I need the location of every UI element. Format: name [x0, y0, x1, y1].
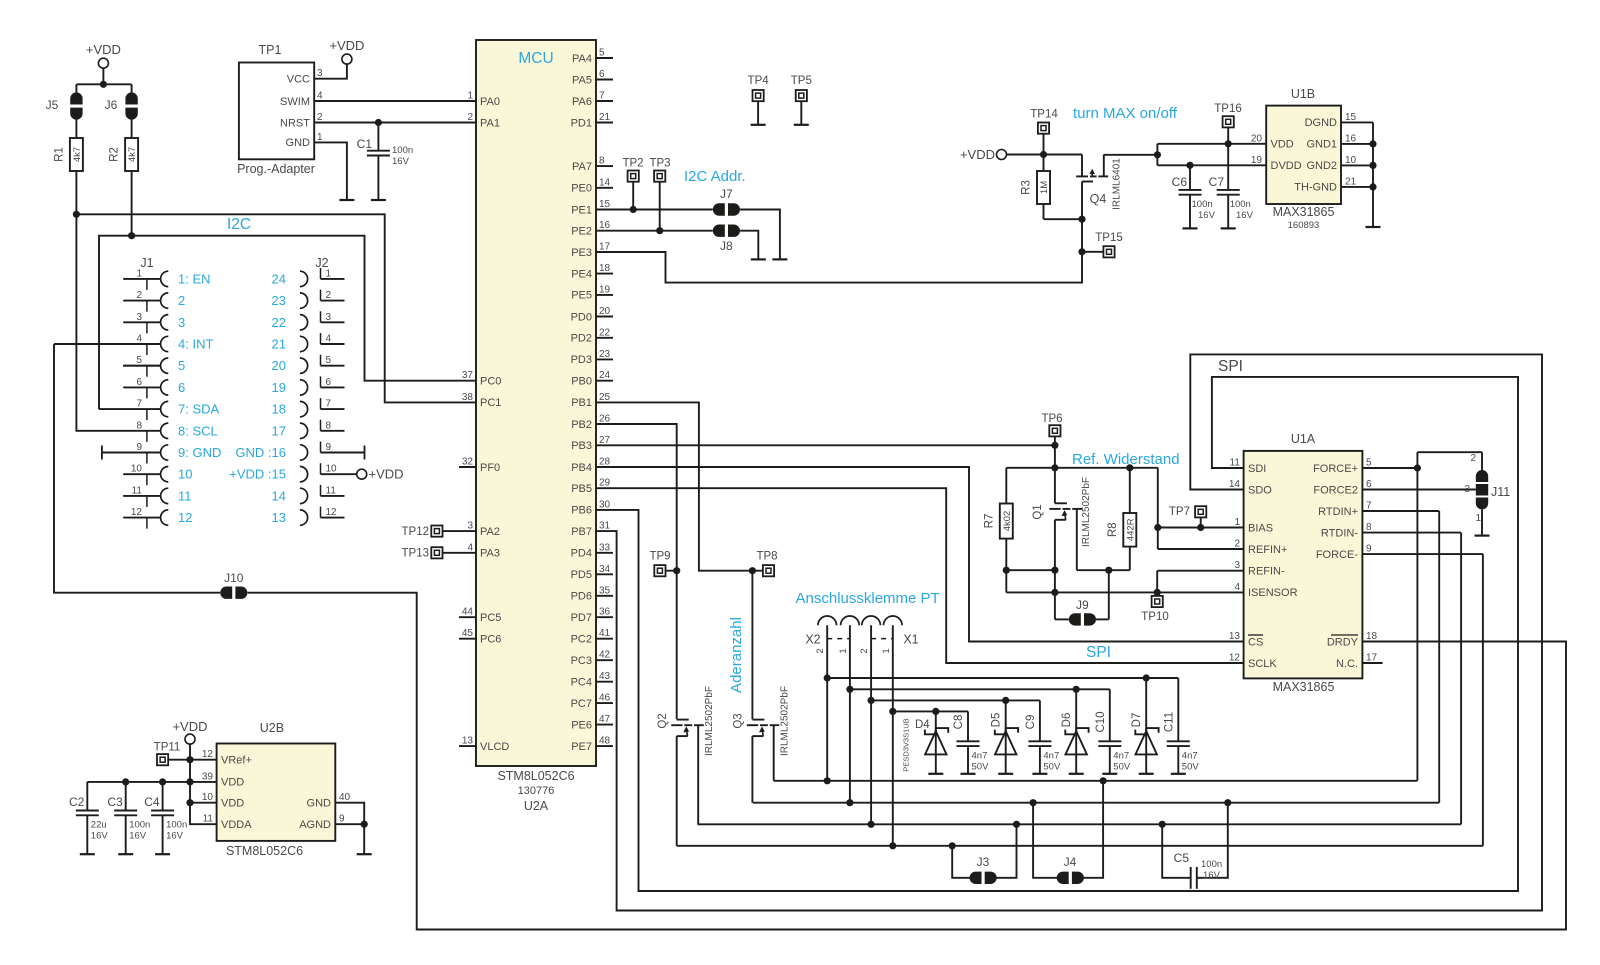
svg-text:29: 29 — [599, 478, 611, 489]
svg-text:4: 4 — [136, 334, 142, 345]
svg-text:19: 19 — [599, 284, 611, 295]
svg-text:5: 5 — [1366, 458, 1372, 469]
svg-text:17: 17 — [272, 423, 286, 438]
svg-text:C1: C1 — [357, 137, 373, 151]
svg-text:7: 7 — [599, 91, 605, 102]
svg-text:PB2: PB2 — [571, 419, 592, 431]
svg-text:C7: C7 — [1209, 175, 1225, 189]
svg-text:TP13: TP13 — [402, 548, 430, 560]
svg-text:1: 1 — [326, 268, 332, 279]
svg-text:3: 3 — [136, 312, 142, 323]
svg-text:GND2: GND2 — [1306, 160, 1337, 172]
svg-text:10: 10 — [131, 464, 143, 475]
svg-text:43: 43 — [599, 671, 611, 682]
svg-text:+VDD: +VDD — [960, 147, 995, 162]
svg-text:32: 32 — [462, 457, 474, 468]
svg-text:ISENSOR: ISENSOR — [1248, 587, 1298, 599]
svg-text:7: SDA: 7: SDA — [178, 402, 220, 417]
svg-text:1: 1 — [838, 648, 849, 653]
svg-text:PE4: PE4 — [571, 268, 592, 280]
svg-text:30: 30 — [599, 499, 611, 510]
svg-text:J1: J1 — [140, 256, 153, 270]
svg-text:PD2: PD2 — [571, 333, 592, 345]
svg-text:8: 8 — [1366, 522, 1372, 533]
svg-text:REFIN-: REFIN- — [1248, 566, 1285, 578]
svg-text:14: 14 — [1229, 479, 1241, 490]
svg-text:X1: X1 — [903, 633, 918, 647]
svg-text:4k7: 4k7 — [127, 147, 138, 162]
svg-text:TP12: TP12 — [402, 526, 430, 538]
svg-text:IRLML2502PbF: IRLML2502PbF — [1081, 477, 1092, 547]
svg-text:40: 40 — [339, 792, 351, 803]
svg-text:3: 3 — [178, 315, 185, 330]
svg-text:27: 27 — [599, 435, 611, 446]
svg-text:6: 6 — [136, 377, 142, 388]
svg-text:PD1: PD1 — [571, 117, 592, 129]
svg-text:MAX31865: MAX31865 — [1273, 680, 1335, 694]
svg-text:+VDD: +VDD — [329, 38, 364, 53]
svg-text:SDO: SDO — [1248, 484, 1272, 496]
svg-text:GND :16: GND :16 — [235, 445, 286, 460]
svg-text:8: 8 — [599, 156, 605, 167]
svg-text:7: 7 — [326, 399, 332, 410]
svg-text:23: 23 — [272, 293, 286, 308]
svg-text:J3: J3 — [977, 855, 990, 869]
svg-text:TP9: TP9 — [649, 551, 670, 563]
svg-text:39: 39 — [202, 771, 214, 782]
svg-text:14: 14 — [599, 177, 611, 188]
svg-text:18: 18 — [599, 263, 611, 274]
svg-text:U1A: U1A — [1291, 432, 1316, 446]
svg-text:41: 41 — [599, 628, 611, 639]
svg-text:C3: C3 — [107, 795, 123, 809]
svg-text:TP3: TP3 — [649, 158, 670, 170]
svg-text:GND: GND — [307, 798, 332, 810]
svg-text:25: 25 — [599, 392, 611, 403]
svg-text:4n7: 4n7 — [1182, 751, 1198, 762]
svg-text:GND: GND — [286, 137, 311, 149]
svg-text:Q1: Q1 — [1032, 504, 1044, 519]
svg-text:50V: 50V — [972, 762, 990, 773]
svg-text:5: 5 — [599, 48, 605, 59]
svg-text:TP7: TP7 — [1169, 506, 1190, 518]
svg-text:BIAS: BIAS — [1248, 522, 1273, 534]
svg-text:1M: 1M — [1039, 181, 1050, 194]
svg-text:STM8L052C6: STM8L052C6 — [226, 844, 303, 858]
svg-text:J10: J10 — [224, 571, 244, 585]
svg-text:20: 20 — [599, 306, 611, 317]
svg-text:PB6: PB6 — [571, 505, 592, 517]
svg-text:PB5: PB5 — [571, 483, 592, 495]
svg-text:PC5: PC5 — [480, 612, 501, 624]
svg-text:21: 21 — [1345, 176, 1357, 187]
svg-text:4: 4 — [317, 91, 323, 102]
svg-text:20: 20 — [272, 358, 286, 373]
svg-text:16: 16 — [1345, 133, 1357, 144]
svg-text:11: 11 — [203, 814, 214, 825]
svg-text:TP10: TP10 — [1141, 611, 1169, 623]
svg-text:U2A: U2A — [524, 799, 549, 813]
svg-text:PA5: PA5 — [572, 74, 592, 86]
svg-text:21: 21 — [599, 112, 611, 123]
svg-text:10: 10 — [326, 464, 338, 475]
svg-text:N.C.: N.C. — [1336, 658, 1358, 670]
svg-text:PD3: PD3 — [571, 354, 592, 366]
svg-text:1: 1 — [467, 91, 473, 102]
svg-text:D7: D7 — [1131, 713, 1143, 728]
svg-text:U2B: U2B — [260, 721, 284, 735]
svg-text:50V: 50V — [1043, 762, 1061, 773]
svg-text:PA1: PA1 — [480, 117, 500, 129]
svg-text:9: 9 — [339, 814, 345, 825]
svg-text:C10: C10 — [1095, 711, 1107, 732]
svg-text:34: 34 — [599, 564, 611, 575]
svg-text:2: 2 — [136, 290, 142, 301]
svg-text:2: 2 — [178, 293, 185, 308]
svg-text:2: 2 — [467, 112, 473, 123]
svg-text:21: 21 — [272, 337, 286, 352]
svg-text:VDD: VDD — [1271, 139, 1294, 151]
svg-text:2: 2 — [1470, 453, 1476, 464]
svg-text:PD5: PD5 — [571, 569, 592, 581]
svg-text:TP15: TP15 — [1095, 232, 1123, 244]
svg-text:VDD: VDD — [221, 777, 244, 789]
svg-text:33: 33 — [599, 542, 611, 553]
svg-text:PC0: PC0 — [480, 376, 501, 388]
svg-text:6: 6 — [326, 377, 332, 388]
svg-text:36: 36 — [599, 607, 611, 618]
svg-text:8: 8 — [136, 420, 142, 431]
svg-text:SPI: SPI — [1086, 644, 1111, 661]
svg-text:6: 6 — [178, 380, 185, 395]
svg-text:IRLML2502PbF: IRLML2502PbF — [704, 686, 715, 756]
svg-text:+VDD: +VDD — [86, 42, 121, 57]
svg-text:R1: R1 — [53, 147, 65, 162]
svg-text:100n: 100n — [1230, 199, 1251, 210]
svg-text:MCU: MCU — [518, 50, 553, 67]
svg-text:C2: C2 — [69, 795, 85, 809]
svg-text:9: GND: 9: GND — [178, 445, 221, 460]
svg-text:4k7: 4k7 — [72, 147, 83, 162]
svg-text:J11: J11 — [1491, 485, 1510, 499]
svg-text:C6: C6 — [1172, 175, 1188, 189]
svg-text:CS: CS — [1248, 636, 1263, 648]
svg-text:13: 13 — [462, 736, 474, 747]
svg-text:50V: 50V — [1182, 762, 1200, 773]
svg-text:1: 1 — [136, 268, 142, 279]
svg-text:1: 1 — [317, 132, 323, 143]
svg-text:160893: 160893 — [1288, 220, 1320, 231]
svg-text:2: 2 — [326, 290, 332, 301]
svg-text:PB4: PB4 — [571, 462, 592, 474]
svg-text:10: 10 — [178, 467, 192, 482]
svg-text:VCC: VCC — [287, 74, 310, 86]
svg-text:4n7: 4n7 — [1113, 751, 1129, 762]
svg-text:X2: X2 — [805, 633, 820, 647]
svg-text:5: 5 — [326, 355, 332, 366]
svg-text:12: 12 — [131, 507, 143, 518]
svg-text:J7: J7 — [720, 187, 733, 201]
svg-text:PESD3V3S1UB: PESD3V3S1UB — [902, 718, 911, 771]
svg-text:16V: 16V — [1198, 210, 1216, 221]
svg-text:19: 19 — [1251, 155, 1263, 166]
svg-text:11: 11 — [178, 488, 192, 503]
svg-text:SWIM: SWIM — [280, 96, 310, 108]
svg-text:28: 28 — [599, 457, 611, 468]
svg-text:4: INT: 4: INT — [178, 337, 213, 352]
svg-text:+VDD :15: +VDD :15 — [229, 467, 286, 482]
svg-text:PC1: PC1 — [480, 397, 501, 409]
svg-text:IRLML2502PbF: IRLML2502PbF — [780, 686, 791, 756]
svg-text:TP2: TP2 — [622, 158, 643, 170]
svg-text:PE5: PE5 — [571, 290, 592, 302]
svg-text:11: 11 — [326, 485, 337, 496]
svg-text:C8: C8 — [953, 715, 965, 730]
svg-text:16V: 16V — [129, 831, 147, 842]
svg-text:16V: 16V — [166, 831, 184, 842]
svg-text:6: 6 — [1366, 479, 1372, 490]
svg-text:D6: D6 — [1061, 713, 1073, 728]
svg-text:PF0: PF0 — [480, 462, 500, 474]
svg-text:5: 5 — [178, 358, 185, 373]
svg-text:TP6: TP6 — [1041, 413, 1062, 425]
svg-text:TP4: TP4 — [748, 75, 770, 87]
svg-text:PE6: PE6 — [571, 719, 592, 731]
svg-text:PA0: PA0 — [480, 96, 500, 108]
svg-text:PA6: PA6 — [572, 96, 592, 108]
svg-text:PA3: PA3 — [480, 548, 500, 560]
svg-text:PC2: PC2 — [571, 634, 592, 646]
svg-text:PE2: PE2 — [571, 226, 592, 238]
svg-text:C9: C9 — [1025, 715, 1037, 730]
svg-text:19: 19 — [272, 380, 286, 395]
svg-text:Q3: Q3 — [733, 713, 745, 728]
svg-text:C4: C4 — [144, 795, 160, 809]
svg-text:D5: D5 — [991, 713, 1003, 728]
svg-text:IRLML6401: IRLML6401 — [1112, 158, 1123, 210]
svg-text:8: 8 — [326, 420, 332, 431]
svg-text:R8: R8 — [1107, 522, 1119, 537]
svg-text:9: 9 — [136, 442, 142, 453]
svg-text:22: 22 — [599, 327, 611, 338]
svg-text:11: 11 — [132, 485, 143, 496]
svg-text:4: 4 — [326, 334, 332, 345]
svg-text:12: 12 — [1229, 653, 1241, 664]
svg-text:STM8L052C6: STM8L052C6 — [497, 769, 574, 783]
svg-text:18: 18 — [1366, 631, 1378, 642]
svg-text:8: SCL: 8: SCL — [178, 423, 218, 438]
svg-text:4n7: 4n7 — [1043, 751, 1059, 762]
svg-text:9: 9 — [326, 442, 332, 453]
svg-text:24: 24 — [599, 370, 611, 381]
svg-text:J9: J9 — [1076, 598, 1089, 612]
svg-text:C11: C11 — [1163, 712, 1175, 732]
svg-text:3: 3 — [1234, 560, 1240, 571]
svg-text:100n: 100n — [1192, 199, 1213, 210]
svg-text:35: 35 — [599, 585, 611, 596]
svg-text:130776: 130776 — [518, 785, 555, 797]
svg-text:4: 4 — [467, 542, 473, 553]
svg-text:RTDIN+: RTDIN+ — [1318, 506, 1358, 518]
svg-text:Aderanzahl: Aderanzahl — [728, 617, 745, 693]
svg-text:26: 26 — [599, 414, 611, 425]
svg-text:PD6: PD6 — [571, 591, 592, 603]
svg-text:R7: R7 — [983, 514, 995, 529]
svg-text:48: 48 — [599, 736, 611, 747]
svg-text:11: 11 — [1230, 458, 1241, 469]
svg-text:4n7: 4n7 — [972, 751, 988, 762]
svg-text:12: 12 — [326, 507, 338, 518]
svg-text:1: 1 — [1234, 517, 1240, 528]
svg-text:GND1: GND1 — [1306, 139, 1337, 151]
svg-text:PB0: PB0 — [571, 376, 592, 388]
svg-text:7: 7 — [136, 399, 142, 410]
svg-text:4k02: 4k02 — [1002, 511, 1013, 532]
svg-text:PC4: PC4 — [571, 677, 592, 689]
svg-text:D4: D4 — [915, 719, 930, 731]
svg-text:17: 17 — [1366, 653, 1378, 664]
svg-text:16V: 16V — [1236, 210, 1254, 221]
svg-text:REFIN+: REFIN+ — [1248, 544, 1287, 556]
svg-text:1: 1 — [881, 648, 892, 653]
svg-text:TH-GND: TH-GND — [1294, 182, 1337, 194]
svg-text:NRST: NRST — [280, 117, 310, 129]
svg-text:RTDIN-: RTDIN- — [1321, 527, 1358, 539]
svg-text:FORCE-: FORCE- — [1316, 549, 1359, 561]
svg-text:100n: 100n — [392, 145, 413, 156]
svg-text:PA7: PA7 — [572, 161, 592, 173]
svg-text:U1B: U1B — [1291, 87, 1315, 101]
svg-text:SDI: SDI — [1248, 463, 1266, 475]
svg-text:SPI: SPI — [1218, 358, 1243, 375]
svg-text:PC3: PC3 — [571, 655, 592, 667]
svg-text:J8: J8 — [720, 239, 733, 253]
svg-text:PD7: PD7 — [571, 612, 592, 624]
svg-text:17: 17 — [599, 242, 611, 253]
svg-text:PD4: PD4 — [571, 548, 592, 560]
svg-text:PB3: PB3 — [571, 440, 592, 452]
svg-text:PA4: PA4 — [572, 53, 592, 65]
svg-text:3: 3 — [317, 68, 323, 79]
svg-text:DVDD: DVDD — [1271, 160, 1302, 172]
svg-text:TP1: TP1 — [259, 43, 282, 57]
svg-text:FORCE+: FORCE+ — [1313, 463, 1358, 475]
svg-text:15: 15 — [1345, 112, 1357, 123]
svg-text:VDDA: VDDA — [221, 819, 252, 831]
svg-text:9: 9 — [1366, 544, 1372, 555]
svg-text:DGND: DGND — [1305, 117, 1337, 129]
svg-text:I2C: I2C — [227, 216, 251, 233]
svg-text:TP8: TP8 — [756, 551, 777, 563]
svg-text:PD0: PD0 — [571, 311, 592, 323]
svg-text:50V: 50V — [1113, 762, 1131, 773]
svg-text:+VDD: +VDD — [172, 719, 207, 734]
svg-text:6: 6 — [599, 69, 605, 80]
svg-text:46: 46 — [599, 693, 611, 704]
svg-text:J6: J6 — [105, 98, 118, 112]
svg-text:PE7: PE7 — [571, 741, 592, 753]
svg-text:PC7: PC7 — [571, 698, 592, 710]
svg-text:FORCE2: FORCE2 — [1313, 484, 1358, 496]
svg-text:TP16: TP16 — [1214, 103, 1242, 115]
svg-text:12: 12 — [202, 749, 214, 760]
svg-text:100n: 100n — [129, 820, 150, 831]
svg-text:16V: 16V — [1203, 870, 1221, 881]
svg-text:3: 3 — [467, 521, 473, 532]
svg-text:Q2: Q2 — [657, 713, 669, 728]
svg-text:VLCD: VLCD — [480, 741, 509, 753]
svg-text:+VDD: +VDD — [369, 467, 404, 482]
svg-text:I2C Addr.: I2C Addr. — [684, 168, 746, 185]
svg-text:2: 2 — [815, 648, 826, 653]
svg-text:15: 15 — [599, 199, 611, 210]
svg-text:5: 5 — [136, 355, 142, 366]
svg-text:100n: 100n — [1201, 859, 1222, 870]
svg-text:PB1: PB1 — [571, 397, 592, 409]
svg-text:PC6: PC6 — [480, 634, 501, 646]
svg-text:PE0: PE0 — [571, 183, 592, 195]
svg-text:AGND: AGND — [299, 819, 331, 831]
svg-text:TP5: TP5 — [791, 75, 812, 87]
svg-text:SCLK: SCLK — [1248, 658, 1277, 670]
svg-text:R2: R2 — [109, 147, 121, 162]
svg-text:J5: J5 — [46, 98, 59, 112]
svg-text:TP14: TP14 — [1030, 109, 1058, 121]
svg-text:VDD: VDD — [221, 798, 244, 810]
svg-text:2: 2 — [1234, 539, 1240, 550]
svg-text:38: 38 — [462, 392, 474, 403]
svg-text:PA2: PA2 — [480, 526, 500, 538]
svg-text:Q4: Q4 — [1090, 192, 1107, 206]
svg-text:47: 47 — [599, 714, 611, 725]
svg-text:16V: 16V — [91, 831, 109, 842]
svg-text:100n: 100n — [166, 820, 187, 831]
svg-text:3: 3 — [1464, 484, 1470, 495]
svg-text:turn MAX on/off: turn MAX on/off — [1073, 105, 1178, 122]
svg-text:24: 24 — [272, 271, 286, 286]
svg-text:16V: 16V — [392, 156, 410, 167]
svg-text:10: 10 — [202, 792, 214, 803]
svg-text:1: EN: 1: EN — [178, 271, 211, 286]
svg-text:Ref. Widerstand: Ref. Widerstand — [1072, 451, 1180, 468]
svg-text:45: 45 — [462, 628, 474, 639]
svg-text:13: 13 — [1229, 631, 1241, 642]
svg-text:442R: 442R — [1125, 518, 1136, 541]
svg-text:10: 10 — [1345, 155, 1357, 166]
svg-text:42: 42 — [599, 650, 611, 661]
svg-text:J4: J4 — [1064, 855, 1077, 869]
svg-text:PE3: PE3 — [571, 247, 592, 259]
svg-text:16: 16 — [599, 220, 611, 231]
svg-text:13: 13 — [272, 510, 286, 525]
svg-text:Prog.-Adapter: Prog.-Adapter — [237, 162, 315, 176]
svg-text:20: 20 — [1251, 133, 1263, 144]
svg-text:22: 22 — [272, 315, 286, 330]
svg-text:C5: C5 — [1174, 851, 1190, 865]
svg-text:31: 31 — [599, 521, 611, 532]
svg-text:7: 7 — [1366, 501, 1372, 512]
svg-text:44: 44 — [462, 607, 474, 618]
svg-text:1: 1 — [1475, 513, 1481, 524]
svg-text:2: 2 — [859, 648, 870, 653]
svg-text:Anschlussklemme PT: Anschlussklemme PT — [796, 590, 940, 607]
svg-text:PB7: PB7 — [571, 526, 592, 538]
svg-text:PE1: PE1 — [571, 204, 592, 216]
svg-text:18: 18 — [272, 402, 286, 417]
svg-text:2: 2 — [317, 112, 323, 123]
svg-text:23: 23 — [599, 349, 611, 360]
svg-text:R3: R3 — [1021, 180, 1033, 195]
